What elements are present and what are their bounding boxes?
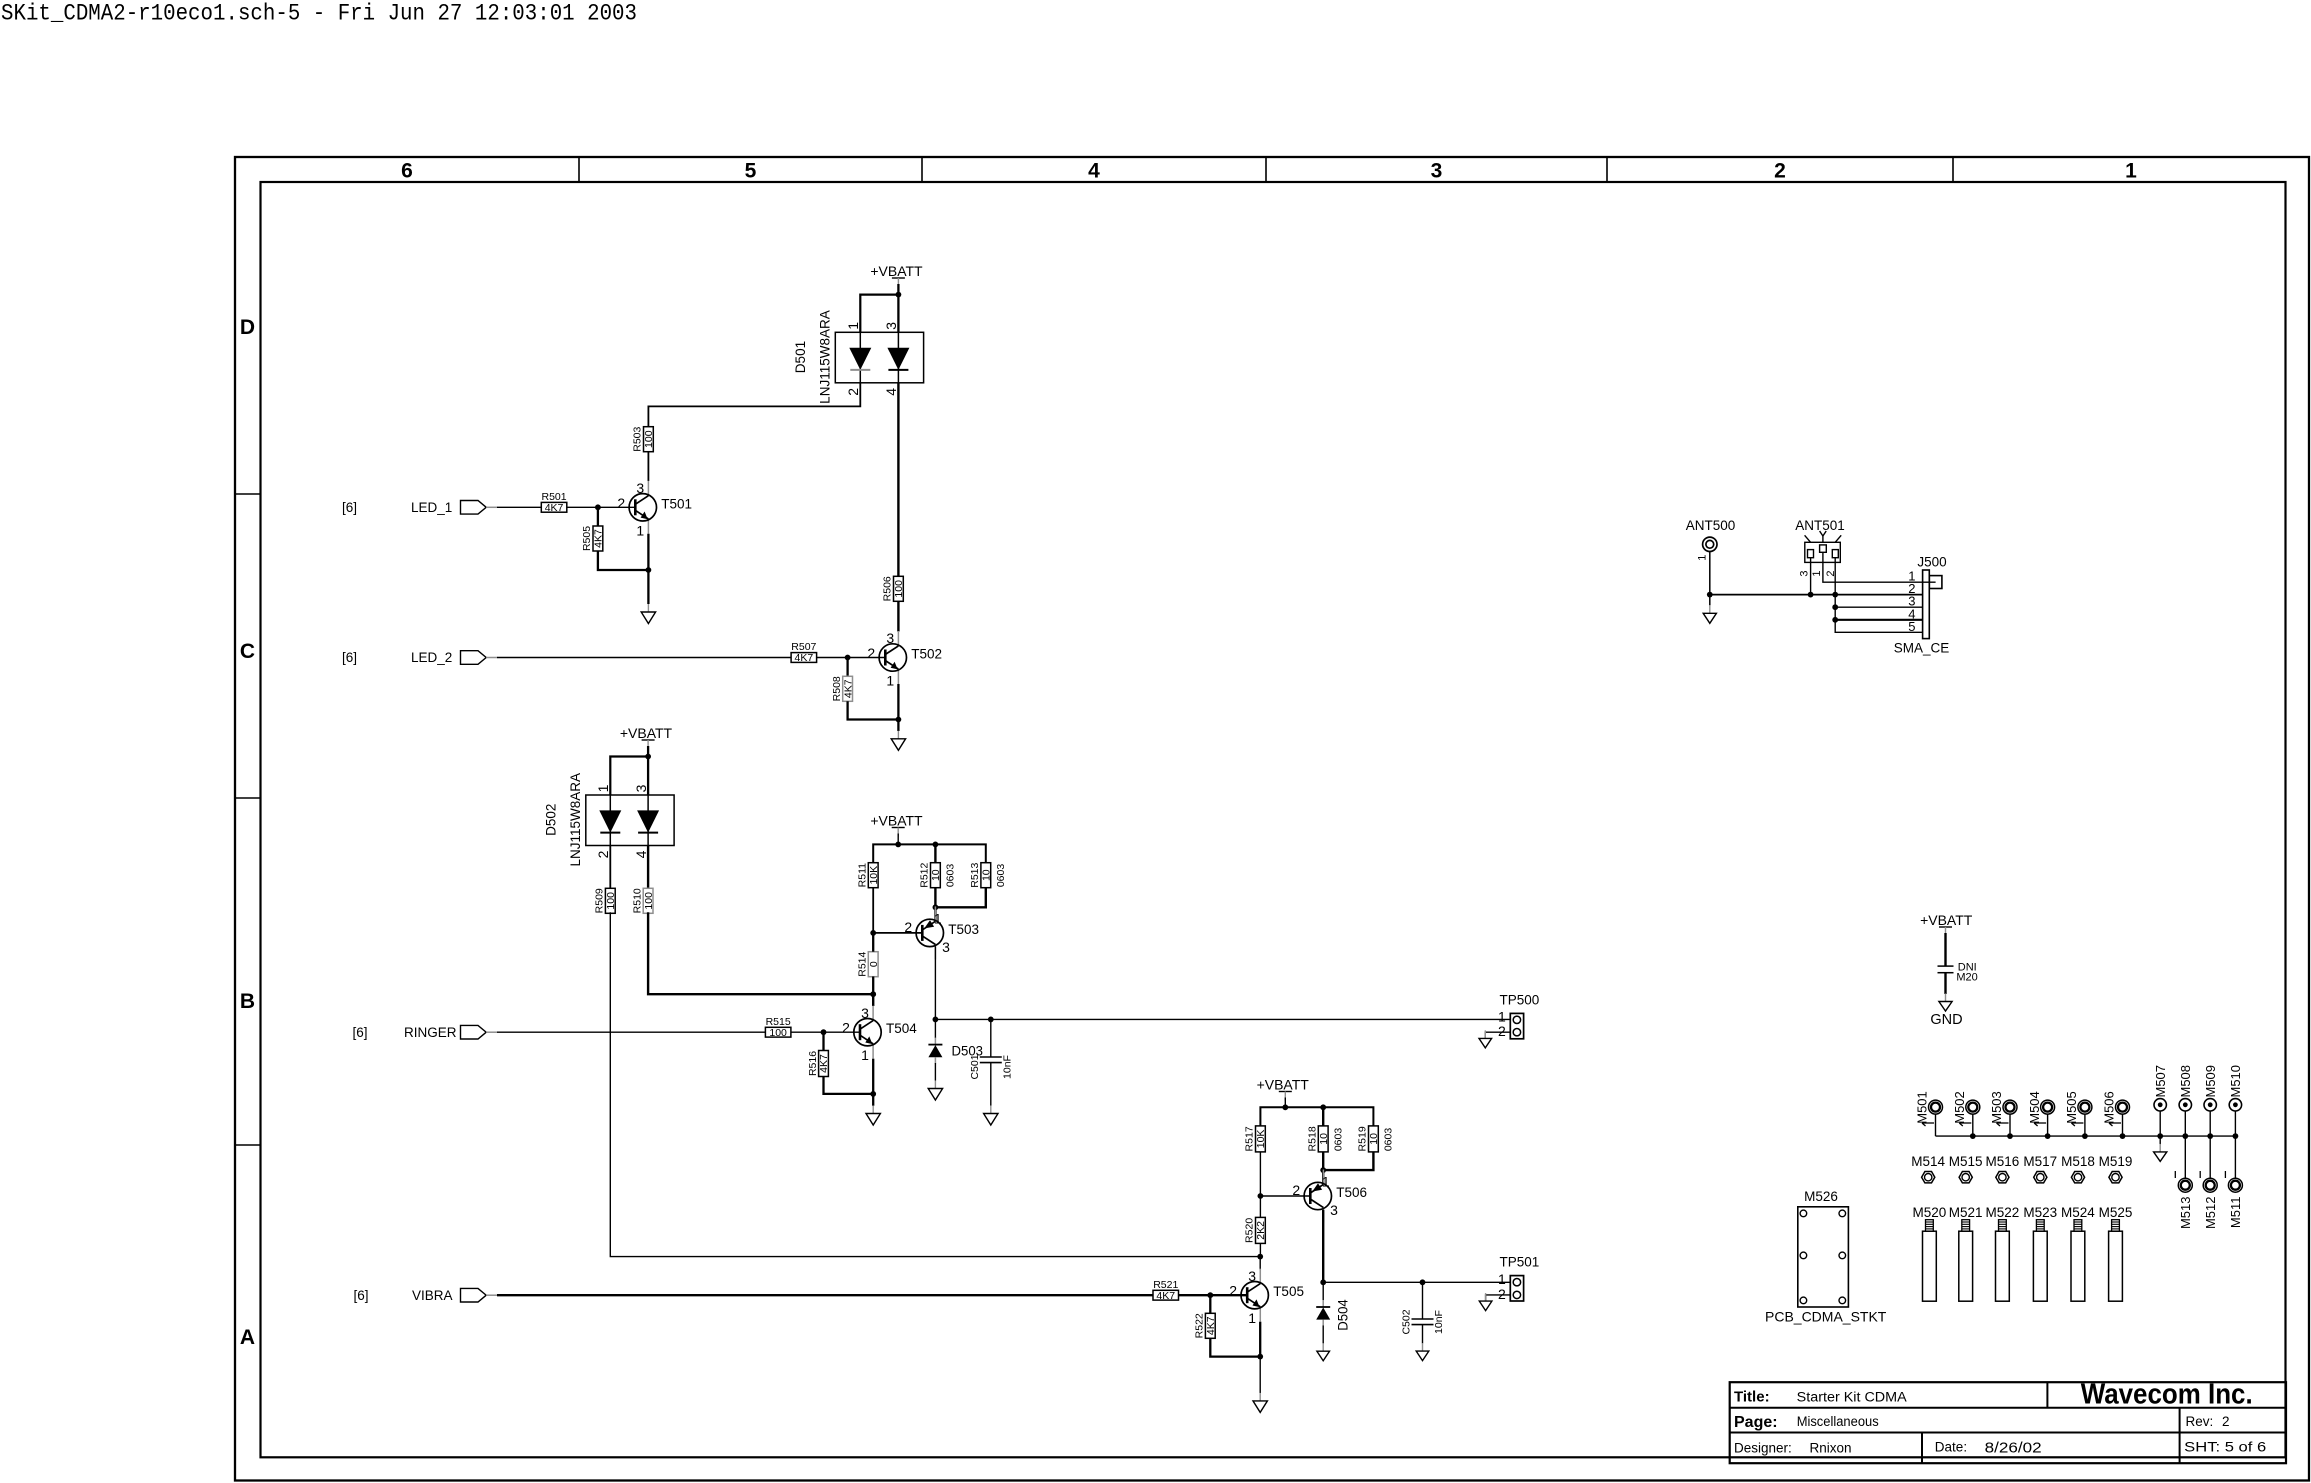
ground below C502 xyxy=(1422,1343,1424,1351)
resistor R508 xyxy=(843,676,853,701)
svg-text:SHT: 5 of 6: SHT: 5 of 6 xyxy=(2184,1440,2266,1455)
svg-text:R512: R512 xyxy=(919,862,931,887)
mounting hole M511 xyxy=(2228,1178,2242,1192)
mounting hole M507 xyxy=(2154,1099,2166,1111)
svg-text:0603: 0603 xyxy=(995,864,1007,888)
wire +VBATT to D502 xyxy=(647,746,649,795)
wire stub xyxy=(1972,1114,1974,1136)
svg-text:TP501: TP501 xyxy=(1500,1255,1540,1270)
svg-text:Rev:: Rev: xyxy=(2186,1414,2214,1429)
svg-text:R503: R503 xyxy=(632,426,644,451)
wire base to T506 xyxy=(1260,1195,1310,1197)
svg-text:2K2: 2K2 xyxy=(1255,1221,1267,1240)
svg-text:M522: M522 xyxy=(1986,1205,2020,1220)
left zone dividers xyxy=(235,493,261,495)
svg-text:5: 5 xyxy=(745,160,757,183)
svg-text:3: 3 xyxy=(942,939,950,955)
svg-text:TP500: TP500 xyxy=(1500,992,1540,1007)
node junction D504/T506 collector xyxy=(1320,1279,1326,1285)
test point TP501 xyxy=(1510,1276,1523,1301)
svg-text:R517: R517 xyxy=(1244,1126,1256,1151)
resistor R517 xyxy=(1256,1126,1266,1152)
resistor R510 xyxy=(643,888,653,913)
svg-text:T502: T502 xyxy=(911,647,942,662)
svg-text:4K7: 4K7 xyxy=(593,529,605,548)
wire bus down to M513 xyxy=(2184,1136,2186,1178)
wire R518 to T506 emitter xyxy=(1322,1152,1324,1184)
mounting hole M513 xyxy=(2178,1178,2192,1192)
svg-text:3: 3 xyxy=(1798,570,1810,576)
svg-text:+VBATT: +VBATT xyxy=(870,263,923,279)
ground bus wire (mounting holes) xyxy=(1936,1135,2236,1137)
svg-text:4K7: 4K7 xyxy=(795,652,814,664)
wire R517 to T506 base xyxy=(1259,1152,1261,1196)
transistor T505 xyxy=(1259,1269,1261,1283)
svg-text:T505: T505 xyxy=(1273,1284,1304,1299)
wire D502 pin4 to R510 xyxy=(647,846,649,889)
svg-text:Miscellaneous: Miscellaneous xyxy=(1797,1414,1879,1429)
node junction bus/M510 xyxy=(2233,1133,2239,1139)
node junction J500 pin4 net xyxy=(1832,617,1838,623)
resistor R520 xyxy=(1256,1217,1266,1243)
node junction bus/M508 xyxy=(2182,1133,2188,1139)
wire node to TP500 xyxy=(935,1018,1510,1020)
svg-text:100: 100 xyxy=(893,580,905,598)
capacitor C502 10nF xyxy=(1412,1318,1434,1320)
svg-text:8/26/02: 8/26/02 xyxy=(1985,1441,2042,1457)
svg-text:C502: C502 xyxy=(1401,1309,1413,1334)
svg-text:R505: R505 xyxy=(581,526,593,551)
resistor R522 xyxy=(1205,1313,1215,1338)
diode D503 xyxy=(934,1038,936,1045)
svg-text:2: 2 xyxy=(845,388,861,396)
svg-text:Designer:: Designer: xyxy=(1734,1441,1792,1456)
node junction rail/stub (T506) xyxy=(1282,1104,1288,1110)
wire R514 to collector net xyxy=(872,977,874,995)
svg-text:M509: M509 xyxy=(2203,1065,2218,1098)
wire junction to R505 xyxy=(597,507,599,526)
resistor R516 xyxy=(819,1051,829,1077)
diode D504 xyxy=(1322,1300,1324,1307)
title block frame xyxy=(1730,1382,2286,1463)
mounting hole M509 xyxy=(2204,1099,2216,1111)
svg-text:100: 100 xyxy=(769,1027,787,1039)
mounting hole M504 xyxy=(2041,1100,2055,1114)
svg-text:RINGER: RINGER xyxy=(404,1025,457,1040)
svg-text:0: 0 xyxy=(868,961,880,967)
wire junction to R508 xyxy=(846,658,848,677)
svg-text:M523: M523 xyxy=(2023,1205,2057,1220)
svg-text:Title:: Title: xyxy=(1734,1389,1770,1406)
node junction emitter/R516 xyxy=(870,1091,876,1097)
svg-text:M505: M505 xyxy=(2064,1091,2079,1124)
wire J500 pin4 xyxy=(1835,619,1922,621)
wire stub xyxy=(2047,1114,2049,1136)
svg-text:3: 3 xyxy=(1330,1202,1338,1218)
wire stub xyxy=(2234,1111,2236,1136)
wire node to TP501 xyxy=(1323,1281,1510,1283)
svg-text:M503: M503 xyxy=(1989,1091,2004,1124)
svg-text:4K7: 4K7 xyxy=(1156,1290,1175,1302)
svg-text:1: 1 xyxy=(636,522,644,538)
svg-text:2: 2 xyxy=(2222,1414,2230,1429)
svg-text:100: 100 xyxy=(643,892,655,910)
node junction rail/stub xyxy=(895,842,901,848)
wire rail to R512 xyxy=(934,844,936,862)
ground below C501 xyxy=(990,1106,992,1114)
wire R512 to T503 emitter xyxy=(934,888,936,922)
svg-text:4K7: 4K7 xyxy=(545,502,564,514)
wire T505 collector xyxy=(1259,1257,1261,1270)
wire +VBATT rail (T506) xyxy=(1260,1107,1373,1126)
wire base junction to R520 xyxy=(1259,1196,1261,1217)
dual LED D501 LNJ115W8ARA xyxy=(835,332,923,383)
wire RINGER to R515 xyxy=(497,1031,765,1033)
node junction bus/M506 xyxy=(2120,1133,2126,1139)
wire branch to D502 pin1 xyxy=(610,757,648,796)
svg-text:D502: D502 xyxy=(544,804,559,836)
wire D502 pin2 to R509 xyxy=(609,846,611,889)
wire D504 to ground xyxy=(1322,1326,1324,1344)
svg-text:M506: M506 xyxy=(2102,1091,2117,1124)
svg-text:3: 3 xyxy=(861,1005,869,1021)
wire node to C501 xyxy=(990,1019,992,1057)
node junction bus/M507 xyxy=(2157,1133,2163,1139)
svg-text:2: 2 xyxy=(1498,1023,1506,1039)
ground below ANT500 xyxy=(1709,605,1711,613)
svg-text:2: 2 xyxy=(904,919,912,935)
wire R515 to T504 base xyxy=(791,1031,860,1033)
wire LED_2 to R507 xyxy=(497,657,791,659)
mounting hole M505 xyxy=(2078,1100,2092,1114)
wire C502 to ground xyxy=(1422,1325,1424,1344)
wire C501 to ground xyxy=(990,1063,992,1106)
svg-text:LNJ115W8ARA: LNJ115W8ARA xyxy=(817,310,832,404)
capacitor M20 (DNI) xyxy=(1938,965,1954,967)
svg-text:4: 4 xyxy=(1088,160,1100,183)
svg-text:R520: R520 xyxy=(1244,1218,1256,1243)
svg-text:10: 10 xyxy=(981,869,993,881)
wire D501 pin4 down xyxy=(897,383,899,577)
resistor R514 xyxy=(868,952,878,977)
wire T502 emitter down xyxy=(897,684,899,731)
resistor R512 xyxy=(931,863,941,888)
svg-text:M518: M518 xyxy=(2061,1154,2095,1169)
node junction at D501 pin3 feed xyxy=(896,292,902,298)
svg-text:10: 10 xyxy=(1368,1133,1380,1145)
wire node down to D503 xyxy=(934,1019,936,1038)
ground below D504 xyxy=(1322,1343,1324,1351)
wire ANT500 net to J500 pin2 xyxy=(1710,594,1923,596)
svg-text:1: 1 xyxy=(845,322,861,330)
wire TP501 pin2 to ground xyxy=(1486,1295,1511,1301)
ground below T504 xyxy=(872,1106,874,1114)
wire bus down to M511 xyxy=(2234,1136,2236,1178)
transistor T506 (PNP) xyxy=(1322,1170,1324,1184)
node junction at D502 pin3 feed xyxy=(645,754,651,760)
wire R501 to T501 base xyxy=(567,506,636,508)
wire stub xyxy=(2084,1114,2086,1136)
inner border frame xyxy=(261,182,2286,1457)
wire T506 collector down to D504 node xyxy=(1322,1210,1324,1283)
wire R521 to T505 base xyxy=(1179,1294,1248,1296)
wire +VBATT to M20 xyxy=(1944,933,1946,966)
svg-text:+VBATT: +VBATT xyxy=(870,813,923,829)
wire ANT501 pin2 down to J500 pin5 xyxy=(1835,562,1922,632)
svg-text:R513: R513 xyxy=(969,862,981,887)
svg-text:1: 1 xyxy=(595,784,611,792)
svg-text:C501: C501 xyxy=(969,1054,981,1079)
svg-text:3: 3 xyxy=(636,480,644,496)
resistor R513 xyxy=(981,863,991,888)
svg-text:M510: M510 xyxy=(2228,1065,2243,1098)
node junction emitter/R505 xyxy=(646,567,652,573)
svg-text:M507: M507 xyxy=(2153,1065,2168,1098)
svg-text:GND: GND xyxy=(1930,1012,1962,1028)
svg-text:R522: R522 xyxy=(1194,1313,1206,1338)
svg-text:4K7: 4K7 xyxy=(1205,1316,1217,1335)
svg-text:T504: T504 xyxy=(886,1021,917,1036)
svg-text:VIBRA: VIBRA xyxy=(412,1288,453,1303)
svg-text:2: 2 xyxy=(1498,1286,1506,1302)
wire T501 emitter down xyxy=(647,534,649,604)
wire node down to D504 xyxy=(1322,1282,1324,1300)
svg-text:1: 1 xyxy=(934,910,942,926)
svg-text:Rnixon: Rnixon xyxy=(1810,1441,1852,1456)
node junction bus/M503 xyxy=(2007,1133,2013,1139)
ground below T501 xyxy=(647,604,649,612)
wire R506 to T502 collector xyxy=(897,602,899,632)
svg-text:M521: M521 xyxy=(1949,1205,1983,1220)
node junction base/R505 xyxy=(595,504,601,510)
svg-text:1: 1 xyxy=(1248,1310,1256,1326)
svg-text:M515: M515 xyxy=(1949,1154,1983,1169)
svg-text:3: 3 xyxy=(633,784,649,792)
svg-text:4K7: 4K7 xyxy=(842,679,854,698)
mounting hole M501 xyxy=(1929,1100,1943,1114)
wire T503 collector down to D503 node xyxy=(934,947,936,1020)
wire T505 emitter down xyxy=(1259,1322,1261,1357)
resistor R521 xyxy=(1153,1290,1179,1300)
wire R516 to emitter net xyxy=(824,1077,874,1094)
ground below T502 xyxy=(897,731,899,739)
node junction R518/R519/emitter xyxy=(1320,1167,1326,1173)
ground below TP501 xyxy=(1485,1293,1487,1301)
wire ANT501 pin1 to J500 pin1 xyxy=(1823,562,1936,582)
svg-text:[6]: [6] xyxy=(352,1025,367,1040)
node junction ANT501 pin3 xyxy=(1808,592,1814,598)
svg-text:M501: M501 xyxy=(1915,1091,1930,1124)
svg-text:+VBATT: +VBATT xyxy=(620,725,673,741)
svg-text:1: 1 xyxy=(886,673,894,689)
svg-text:SKit_CDMA2-r10eco1.sch-5 - Fri: SKit_CDMA2-r10eco1.sch-5 - Fri Jun 27 12… xyxy=(1,1,637,27)
svg-text:10: 10 xyxy=(1318,1133,1330,1145)
resistor R511 xyxy=(868,863,878,888)
test point TP500 xyxy=(1510,1013,1523,1038)
mounting hole M502 xyxy=(1966,1100,1980,1114)
svg-text:R516: R516 xyxy=(807,1051,819,1076)
ground below bus xyxy=(2159,1144,2161,1152)
svg-text:1: 1 xyxy=(1498,1271,1506,1287)
svg-text:2: 2 xyxy=(617,495,625,511)
capacitor C501 10nF xyxy=(980,1056,1002,1058)
node junction J500 pin3 net xyxy=(1832,604,1838,610)
wire R511 to T503 base xyxy=(872,888,874,933)
svg-text:3: 3 xyxy=(1248,1268,1256,1284)
node junction C502 xyxy=(1420,1279,1426,1285)
resistor R519 xyxy=(1369,1126,1379,1152)
mounting hole M510 xyxy=(2229,1099,2241,1111)
node junction R517/R520/base xyxy=(1258,1193,1264,1199)
wire TP500 pin2 to ground xyxy=(1485,1032,1510,1038)
svg-text:4: 4 xyxy=(633,850,649,858)
svg-text:M513: M513 xyxy=(2178,1197,2193,1230)
wire LED_1 to R501 xyxy=(497,506,541,508)
wire R519 to emitter junction xyxy=(1323,1152,1373,1170)
mounting hole M508 xyxy=(2179,1099,2191,1111)
resistor R501 xyxy=(541,502,567,512)
svg-text:T503: T503 xyxy=(948,922,979,937)
wire R522 to emitter net xyxy=(1210,1338,1260,1356)
svg-text:R510: R510 xyxy=(631,888,643,913)
svg-text:LNJ115W8ARA: LNJ115W8ARA xyxy=(568,773,583,867)
wire +VBATT stub to rail xyxy=(1284,1098,1286,1108)
wire J500 pin3 xyxy=(1835,606,1922,608)
top zone dividers xyxy=(578,157,580,182)
node junction bus/M504 xyxy=(2045,1133,2051,1139)
svg-text:Wavecom Inc.: Wavecom Inc. xyxy=(2081,1379,2253,1411)
wire ANT501 pin3 down xyxy=(1810,562,1812,594)
wire bus down to M512 xyxy=(2209,1136,2211,1178)
svg-text:M519: M519 xyxy=(2099,1154,2133,1169)
ground below M20 xyxy=(1945,994,1947,1002)
node junction rail/R518 xyxy=(1320,1104,1326,1110)
svg-text:2: 2 xyxy=(1774,160,1786,183)
svg-text:3: 3 xyxy=(1431,160,1443,183)
svg-text:3: 3 xyxy=(883,322,899,330)
svg-text:LED_1: LED_1 xyxy=(411,500,452,515)
svg-text:1: 1 xyxy=(1697,555,1709,561)
ground below D503 xyxy=(934,1081,936,1089)
svg-text:A: A xyxy=(240,1326,255,1349)
svg-text:5: 5 xyxy=(1908,619,1915,634)
wire stub xyxy=(1935,1114,1937,1136)
wire D503 to ground xyxy=(934,1063,936,1081)
resistor R505 xyxy=(593,526,603,551)
wire R507 to T502 base xyxy=(817,657,886,659)
svg-text:2: 2 xyxy=(842,1020,850,1036)
wire R505 to emitter net xyxy=(598,552,649,571)
svg-text:D504: D504 xyxy=(1336,1299,1351,1331)
svg-text:C: C xyxy=(240,640,255,663)
wire T504 collector xyxy=(872,994,874,1006)
transistor T503 (PNP) xyxy=(934,906,936,920)
svg-text:10nF: 10nF xyxy=(1433,1310,1445,1334)
svg-text:+VBATT: +VBATT xyxy=(1257,1077,1310,1093)
wire +VBATT to D501 xyxy=(897,284,899,332)
svg-text:D: D xyxy=(240,316,255,339)
svg-text:M520: M520 xyxy=(1913,1205,1947,1220)
svg-text:M524: M524 xyxy=(2061,1205,2095,1220)
svg-text:2: 2 xyxy=(867,645,875,661)
resistor R518 xyxy=(1318,1126,1328,1152)
svg-text:R519: R519 xyxy=(1357,1126,1369,1151)
node junction emitter/R522 xyxy=(1257,1354,1263,1360)
node junction R520/RINGER-drive/T505 collector xyxy=(1257,1254,1263,1260)
node junction R512/R513/emitter xyxy=(933,904,939,910)
mounting hole M512 xyxy=(2203,1178,2217,1192)
wire stub xyxy=(2209,1111,2211,1136)
wire branch to D501 pin1 xyxy=(860,295,898,333)
svg-text:SMA_CE: SMA_CE xyxy=(1894,641,1950,656)
svg-text:Page:: Page: xyxy=(1734,1414,1778,1431)
resistor R515 xyxy=(765,1027,791,1037)
node junction ANT500 xyxy=(1707,592,1713,598)
dual LED D502 LNJ115W8ARA xyxy=(586,795,674,846)
wire R520 to T505 collector net xyxy=(1259,1244,1261,1257)
svg-text:0603: 0603 xyxy=(1332,1128,1344,1152)
wire junction to R522 xyxy=(1209,1295,1211,1313)
svg-text:[6]: [6] xyxy=(342,650,357,665)
node junction R514/R510 net/T504 collector xyxy=(870,991,876,997)
wire base to T503 xyxy=(873,932,922,934)
svg-text:M512: M512 xyxy=(2203,1197,2218,1230)
wire node to C502 xyxy=(1422,1282,1424,1319)
svg-text:4: 4 xyxy=(883,388,899,396)
svg-text:M504: M504 xyxy=(2027,1091,2042,1124)
svg-text:LED_2: LED_2 xyxy=(411,650,452,665)
svg-text:J500: J500 xyxy=(1917,555,1946,570)
node junction base/R508 xyxy=(845,655,851,661)
wire stub xyxy=(2159,1111,2161,1136)
node junction rail/R512 xyxy=(933,842,939,848)
svg-text:10K: 10K xyxy=(1255,1130,1267,1149)
wire junction to R516 xyxy=(822,1032,824,1050)
transistor T501 xyxy=(647,481,649,495)
node junction base/R516 xyxy=(821,1029,827,1035)
wire stub xyxy=(2009,1114,2011,1136)
wire M20 to ground xyxy=(1944,973,1946,994)
wire R510 down to T504 collector net xyxy=(648,912,873,994)
wire junction to ground (T505) xyxy=(1259,1357,1261,1393)
svg-text:4K7: 4K7 xyxy=(818,1054,830,1073)
wire rail to R518 xyxy=(1322,1107,1324,1126)
svg-text:1: 1 xyxy=(1811,570,1823,576)
wire D501 pin2 to R503 xyxy=(648,383,860,427)
svg-text:B: B xyxy=(240,990,255,1013)
svg-text:R518: R518 xyxy=(1307,1126,1319,1151)
svg-text:100: 100 xyxy=(605,892,617,910)
svg-text:10nF: 10nF xyxy=(1002,1055,1014,1079)
svg-text:M511: M511 xyxy=(2228,1197,2243,1229)
node junction C501 xyxy=(988,1017,994,1023)
wire ANT500 down xyxy=(1709,552,1711,606)
node junction ANT501 pin2 xyxy=(1832,592,1838,598)
wire T504 emitter down xyxy=(872,1059,874,1106)
wire stub xyxy=(2122,1114,2124,1136)
node junction bus/M502 xyxy=(1970,1133,1976,1139)
wire base junction to R514 xyxy=(872,933,874,952)
resistor R509 xyxy=(605,888,615,913)
wire stub xyxy=(2184,1111,2186,1136)
svg-text:PCB_CDMA_STKT: PCB_CDMA_STKT xyxy=(1765,1309,1887,1325)
svg-text:R509: R509 xyxy=(594,888,606,913)
node junction bus/M505 xyxy=(2082,1133,2088,1139)
svg-text:R506: R506 xyxy=(882,576,894,601)
wire R513 to emitter junction xyxy=(935,888,985,908)
svg-text:3: 3 xyxy=(886,630,894,646)
svg-text:T501: T501 xyxy=(661,496,692,511)
